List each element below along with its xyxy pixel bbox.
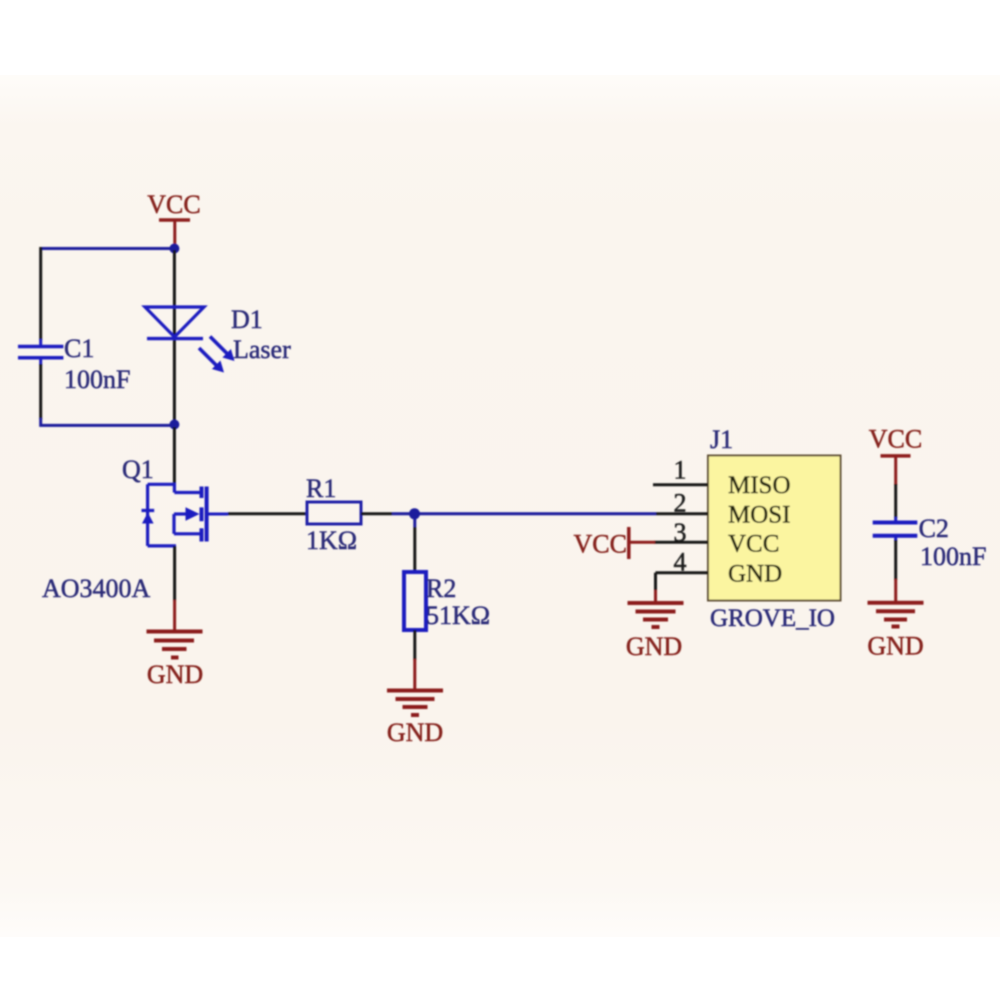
- connector J1 GROVE_IO: [708, 425, 841, 632]
- svg-text:Q1: Q1: [122, 455, 154, 484]
- svg-text:C2: C2: [919, 514, 949, 543]
- svg-text:GND: GND: [867, 632, 923, 661]
- svg-text:100nF: 100nF: [64, 365, 130, 394]
- wire gate stub blue: [207, 513, 228, 516]
- svg-text:VCC: VCC: [869, 425, 922, 454]
- wire C1 left vertical upper: [39, 247, 42, 346]
- node junction D1/C1/Q1: [169, 420, 179, 430]
- node junction R1/R2: [409, 508, 420, 519]
- svg-text:GND: GND: [387, 718, 443, 747]
- wire anode vertical (VCC node to D1): [173, 250, 176, 337]
- svg-text:3: 3: [674, 518, 687, 547]
- capacitor C1: [18, 334, 130, 394]
- wire bottom rail horizontal: [41, 418, 172, 425]
- resistor R1: [306, 474, 361, 555]
- svg-text:51KΩ: 51KΩ: [426, 601, 490, 630]
- svg-text:GND: GND: [728, 561, 782, 588]
- svg-text:D1: D1: [231, 305, 263, 334]
- ground GND below J1 pin 4: [626, 603, 684, 661]
- svg-text:MOSI: MOSI: [728, 502, 791, 529]
- pin 1 stub: [653, 483, 708, 486]
- wire VCC to C2: [894, 484, 897, 522]
- pin 2 stub: [656, 512, 708, 515]
- svg-text:GND: GND: [147, 660, 203, 689]
- svg-text:R1: R1: [306, 474, 336, 503]
- wire pin 4 to ground: [654, 573, 657, 602]
- svg-text:AO3400A: AO3400A: [42, 574, 151, 603]
- power flag VCC (pin 3): [574, 527, 656, 559]
- svg-text:MISO: MISO: [728, 472, 791, 499]
- pin 4 stub: [656, 571, 709, 574]
- ground GND right: [867, 603, 923, 661]
- svg-text:GROVE_IO: GROVE_IO: [710, 605, 835, 632]
- node junction VCC rail: [169, 244, 179, 254]
- svg-text:GND: GND: [626, 632, 682, 661]
- wire R2 to ground: [413, 630, 416, 689]
- power flag VCC (top): [147, 190, 200, 247]
- svg-text:100nF: 100nF: [920, 542, 986, 571]
- wire junction down to R2: [413, 514, 416, 572]
- power flag VCC (right): [869, 425, 922, 486]
- pin 3 stub: [654, 541, 708, 544]
- svg-text:4: 4: [674, 548, 687, 577]
- wire R1 to junction: [361, 512, 656, 515]
- capacitor C2: [873, 514, 987, 571]
- wire cathode vertical (D1 to node): [173, 340, 176, 422]
- ground GND below R2: [387, 691, 443, 748]
- wire source to ground: [173, 546, 176, 630]
- svg-text:1KΩ: 1KΩ: [306, 526, 357, 555]
- svg-text:J1: J1: [710, 425, 733, 454]
- svg-text:1: 1: [674, 456, 687, 485]
- transistor Q1: [42, 455, 207, 603]
- resistor R2: [404, 572, 490, 630]
- wire gate to R1: [228, 512, 308, 515]
- svg-text:VCC: VCC: [574, 530, 627, 559]
- svg-text:R2: R2: [426, 574, 456, 603]
- wire C2 to ground: [894, 536, 897, 602]
- svg-text:VCC: VCC: [728, 531, 779, 558]
- wire drain vertical: [173, 427, 176, 484]
- svg-text:VCC: VCC: [147, 190, 200, 219]
- svg-text:C1: C1: [64, 334, 94, 363]
- wire top rail horizontal: [41, 247, 172, 250]
- svg-text:2: 2: [674, 489, 687, 518]
- svg-text:Laser: Laser: [233, 335, 291, 364]
- diode D1 laser: [145, 305, 291, 373]
- wire C1 left vertical lower: [39, 358, 42, 419]
- ground GND below Q1: [147, 632, 204, 690]
